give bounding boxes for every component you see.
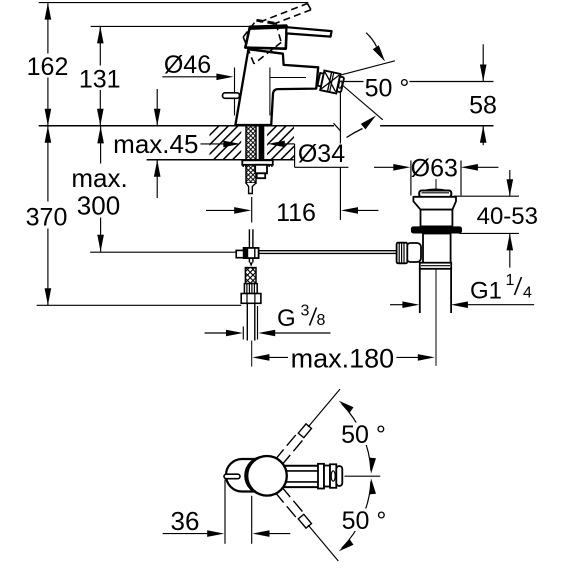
hose tail pipe [247,303,255,340]
drain valve O-ring seal [411,226,462,233]
drain valve flange [413,197,456,210]
dimension G1 1/4 (drain thread) [390,272,534,308]
svg-text:58: 58 [469,92,497,120]
drain valve side port and knurled knob [397,243,421,264]
svg-text:G1: G1 [470,278,502,305]
svg-text:Ø46: Ø46 [164,51,211,79]
dimension O63 (drain flange diameter) [374,155,498,196]
svg-text:max.45: max.45 [113,129,198,159]
plan view dashed spout lowered -50 [277,489,339,561]
dimension 116 (spout projection) [206,91,378,228]
G3/8 connection hose end [241,268,261,304]
svg-text:max.180: max.180 [291,344,395,374]
plan view body circle [247,456,287,496]
svg-text:4: 4 [523,285,532,302]
svg-text:Ø34: Ø34 [298,140,345,168]
dimension 36 (plan offset) [163,480,291,544]
dimension G3/8 (supply thread) [205,303,331,340]
drain valve centerline [435,179,437,366]
svg-text:3: 3 [301,303,310,320]
O46 extent lines over spout [270,68,306,116]
dimension 162 (height above deck) [27,3,69,126]
mounting washer under deck [242,160,272,167]
plan view 50 deg arc lower [339,478,376,551]
dimension 131 (body height) [79,26,121,125]
faucet body and spout [235,49,318,125]
svg-text:36: 36 [171,506,200,536]
pop-up rod clamp linkage [236,229,258,266]
plan view aerator [318,464,342,489]
dimension max.45 (deck thickness) [108,89,204,198]
drain tail pipe G1 1/4 [420,269,451,366]
svg-text:162: 162 [27,53,69,81]
mounting nut [255,165,267,178]
dimension 58 (outlet height) [469,44,497,145]
svg-text:131: 131 [79,66,121,94]
svg-text:50 °: 50 ° [341,421,386,449]
hose centerline [251,341,253,367]
handle lever dashed (raised position) [243,4,311,64]
pop-up rod through deck (black) [259,126,265,161]
plan view 50 deg label lower [340,507,387,535]
plan view 50 deg label upper [340,421,387,449]
plan view spout centerline [345,475,381,477]
spout outlet height reference line [341,81,494,83]
dimension max.180 (hose reach) [252,344,434,374]
handle lever (closed position) [286,27,331,36]
svg-text:50 °: 50 ° [342,507,387,535]
dimension 370 (overall height) [26,126,68,305]
plan view handle capsule [226,459,272,492]
deck top line break mark [334,123,342,131]
aerator mousseur [317,70,345,95]
plan view spout arm [283,466,318,487]
pop-up rod reference line [90,251,236,253]
deck top surface line [39,125,494,127]
hose end reference line (370 bottom) [37,304,242,306]
drain valve upper cylinder [421,210,453,227]
svg-text:max.: max. [71,163,127,193]
drain valve body [423,234,451,264]
annotation 50 deg aerator swivel (side view) [341,33,409,138]
dimension O46 (body diameter) [162,51,306,116]
plan view dashed spout raised +50 [277,389,340,463]
svg-text:300: 300 [77,191,120,221]
dimension max.300 (rod length) [71,126,127,252]
svg-text:Ø63: Ø63 [411,155,458,183]
plan view 50 deg arc upper [339,401,376,474]
plan view body circle inner [245,457,283,495]
svg-text:40-53: 40-53 [477,203,538,230]
top reference line (handle raised height) [39,2,309,4]
svg-text:116: 116 [276,199,316,227]
dimension O34 (hole diameter) [201,140,351,168]
svg-text:50 °: 50 ° [365,75,410,103]
flexible hose through deck [246,126,256,194]
svg-text:1: 1 [506,272,515,289]
deck hatch right of faucet [233,126,352,160]
plan view pin (pop-up knob) [224,474,240,479]
svg-text:370: 370 [26,204,68,232]
horizontal linkage rod to drain valve [259,251,397,254]
pop-up knob on body [223,93,240,99]
handle cap [245,26,287,53]
svg-text:G: G [277,305,296,332]
svg-text:8: 8 [317,312,326,329]
reference line 131 (handle closed height) [91,25,285,27]
dimension 40-53 (clamping range) [454,170,538,268]
drain valve coupling ring [420,263,451,269]
deck underside line [147,159,294,161]
deck hatch left of faucet [176,126,305,160]
drain valve plug cap [419,189,451,197]
